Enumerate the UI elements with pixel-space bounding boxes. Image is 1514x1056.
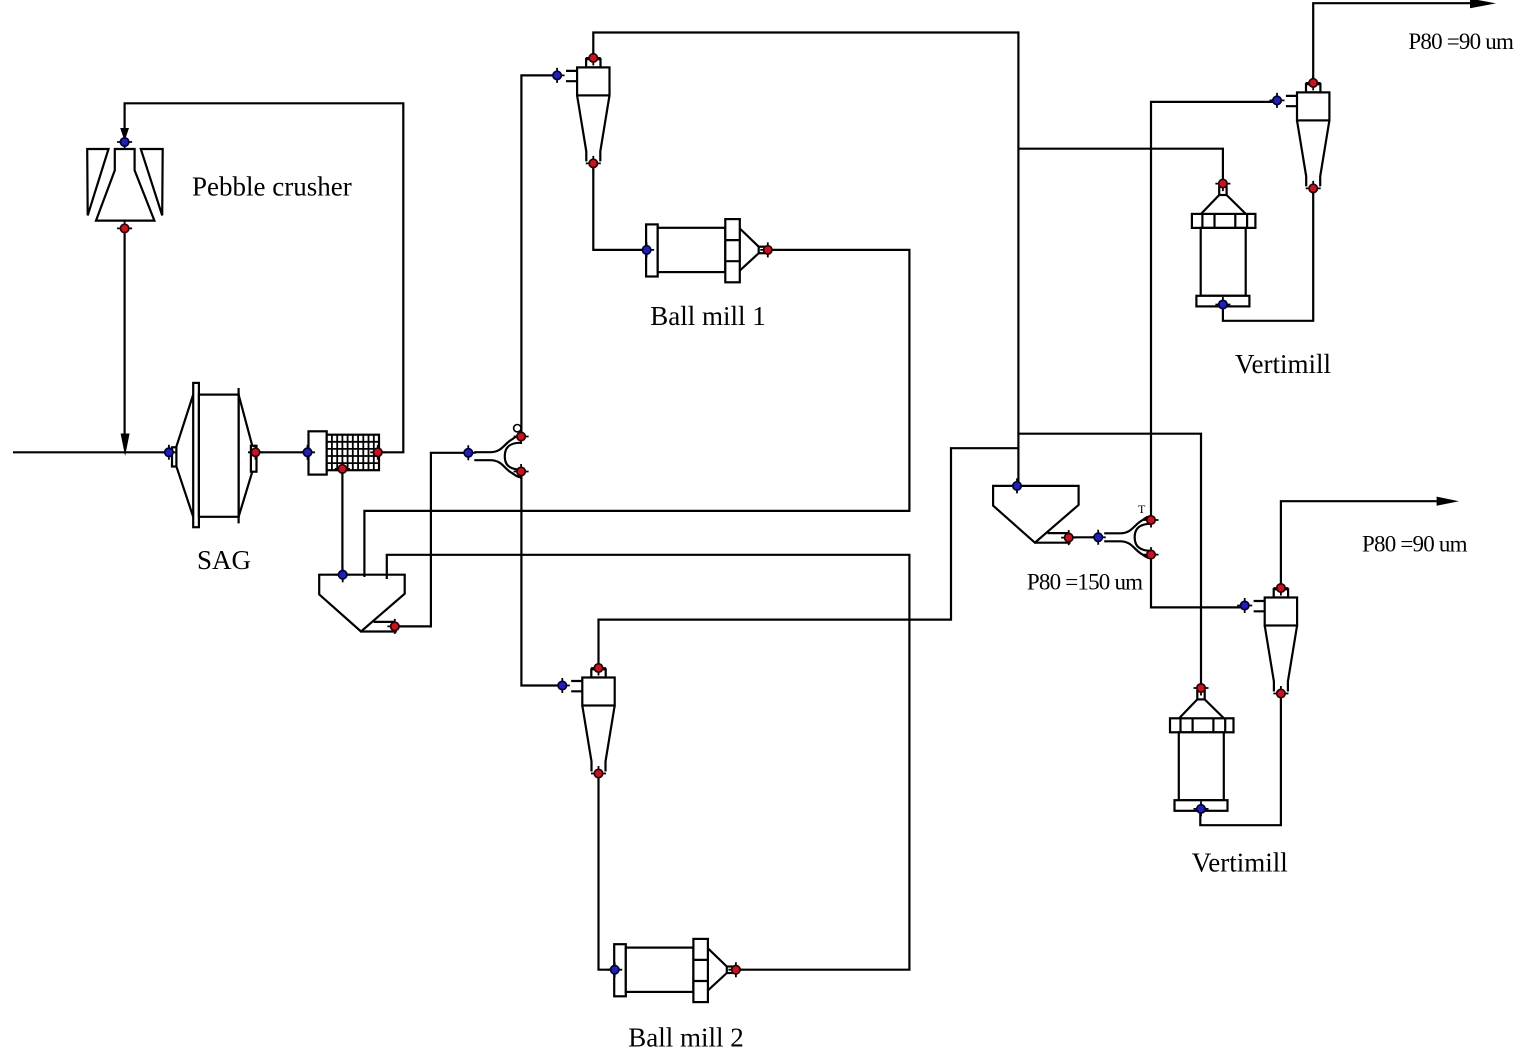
port cyclone1 underflow (red) bbox=[586, 156, 601, 171]
wire splitter2 top to cyclone3 feed bbox=[1151, 102, 1274, 516]
port sump1 discharge (red) bbox=[387, 619, 402, 634]
port vertimill2 feed (blue) bbox=[1194, 801, 1209, 816]
wire vertimill2 product to sump2 junction bbox=[1018, 434, 1201, 685]
port cyclone4 overflow (red) bbox=[1273, 581, 1288, 596]
ball mill 2 bbox=[614, 939, 733, 1002]
cyclone 3 bbox=[1286, 84, 1330, 186]
wire cyclone1 underflow to ball mill 1 bbox=[593, 167, 643, 250]
wire ball mill 2 discharge to sump1 bbox=[387, 555, 910, 970]
wire vertimill1 product to sump2 junction bbox=[1018, 149, 1223, 180]
port vertimill1 feed (blue) bbox=[1215, 297, 1230, 312]
port splitter1 out top (red) bbox=[514, 429, 529, 444]
port vertimill1 product (red) bbox=[1215, 176, 1230, 191]
port ballmill2 feed (blue) bbox=[607, 962, 622, 977]
wire crusher discharge down to feed line with arrow bbox=[121, 231, 130, 456]
svg-text:Pebble crusher: Pebble crusher bbox=[192, 172, 352, 202]
wire sump1 to splitter1 bbox=[398, 453, 465, 627]
sump 2 bbox=[993, 486, 1079, 543]
port sump2 discharge (red) bbox=[1061, 530, 1076, 545]
svg-text:T: T bbox=[1138, 502, 1146, 516]
port screen feed (blue) bbox=[300, 445, 315, 460]
cyclone 4 bbox=[1254, 589, 1298, 691]
wire cyclone2 underflow to ball mill 2 bbox=[599, 777, 612, 970]
port splitter1 out bottom (red) bbox=[514, 464, 529, 479]
wire cyclone3 overflow to product arrow top bbox=[1313, 0, 1496, 79]
port ballmill2 discharge (red) bbox=[728, 962, 743, 977]
wire cyclone2 overflow to sump2 junction bbox=[599, 448, 1019, 664]
wire splitter1 top to cyclone1 feed bbox=[521, 75, 553, 433]
svg-text:P80 =150 um: P80 =150 um bbox=[1027, 570, 1143, 595]
wire ball mill 1 discharge to sump1 bbox=[364, 250, 909, 577]
wire cyclone3 underflow to vertimill1 bbox=[1223, 193, 1313, 321]
port splitter2 out bottom (red) bbox=[1144, 547, 1159, 562]
port cyclone1 overflow (red) bbox=[586, 50, 601, 65]
port cyclone3 feed (blue) bbox=[1270, 93, 1285, 108]
port vertimill2 product (red) bbox=[1194, 681, 1209, 696]
svg-text:P80 =90 um: P80 =90 um bbox=[1408, 29, 1514, 54]
wire fresh feed into SAG bbox=[13, 451, 166, 453]
wire pebble recycle: screen oversize right, up, left to crusher, down with arrow bbox=[120, 103, 403, 452]
wire splitter1 bottom to cyclone2 feed bbox=[521, 475, 559, 686]
port sump1 feed (blue) bbox=[335, 567, 350, 582]
port splitter1 feed (blue) bbox=[461, 445, 476, 460]
port ballmill1 feed (blue) bbox=[639, 242, 654, 257]
port cyclone2 feed (blue) bbox=[555, 678, 570, 693]
svg-text:Vertimill: Vertimill bbox=[1192, 848, 1288, 878]
port cyclone1 feed (blue) bbox=[550, 68, 565, 83]
port SAG discharge (red) bbox=[248, 445, 263, 460]
port cyclone2 underflow (red) bbox=[591, 766, 606, 781]
splitter 1 bbox=[474, 425, 521, 478]
port cyclone4 feed (blue) bbox=[1237, 598, 1252, 613]
svg-text:P80 =90 um: P80 =90 um bbox=[1362, 531, 1468, 556]
wire screen undersize down to sump bbox=[341, 472, 343, 573]
ball mill 1 bbox=[646, 219, 765, 282]
pebble crusher bbox=[87, 149, 163, 221]
port cyclone2 overflow (red) bbox=[591, 661, 606, 676]
port crusher feed (blue) bbox=[117, 135, 132, 150]
port ballmill1 discharge (red) bbox=[760, 242, 775, 257]
svg-text:Ball mill 1: Ball mill 1 bbox=[650, 301, 766, 331]
svg-text:Vertimill: Vertimill bbox=[1235, 349, 1331, 379]
port cyclone3 underflow (red) bbox=[1306, 181, 1321, 196]
cyclone 1 bbox=[566, 59, 610, 161]
wire cyclone4 overflow to product arrow bottom bbox=[1281, 497, 1459, 584]
splitter 2 bbox=[1104, 516, 1151, 558]
wire splitter2 bottom to cyclone4 feed bbox=[1151, 559, 1242, 608]
vertimill 2 bbox=[1170, 691, 1234, 811]
vertimill 1 bbox=[1192, 187, 1256, 307]
port screen undersize (red) bbox=[335, 461, 350, 476]
svg-text:SAG: SAG bbox=[197, 545, 251, 575]
SAG mill bbox=[172, 383, 257, 527]
svg-text:Ball mill 2: Ball mill 2 bbox=[628, 1023, 744, 1053]
port SAG feed (blue) bbox=[161, 445, 176, 460]
sump 1 bbox=[319, 575, 405, 632]
port splitter2 out top (red) bbox=[1144, 513, 1159, 528]
screen bbox=[309, 431, 380, 474]
wire cyclone1 overflow to sump2 junction bbox=[593, 33, 1018, 483]
port splitter2 feed (blue) bbox=[1091, 530, 1106, 545]
wire sump2 to splitter2 bbox=[1072, 536, 1095, 538]
cyclone 2 bbox=[571, 669, 615, 771]
port cyclone3 overflow (red) bbox=[1306, 75, 1321, 90]
port crusher product (red) bbox=[117, 221, 132, 236]
port screen oversize (red) bbox=[370, 445, 385, 460]
port sump2 feed (blue) bbox=[1010, 478, 1025, 493]
wire cyclone4 underflow to vertimill2 bbox=[1200, 698, 1281, 826]
wire SAG to screen bbox=[259, 451, 305, 453]
port cyclone4 underflow (red) bbox=[1273, 686, 1288, 701]
